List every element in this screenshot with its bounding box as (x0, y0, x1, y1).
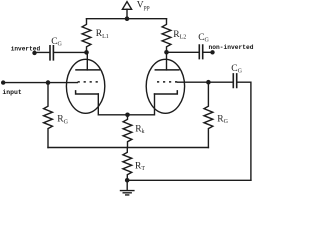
wire inverted output right segment (54, 51, 87, 53)
wire top supply rail (87, 18, 167, 20)
triode V2 plate bar (155, 69, 179, 71)
resistor RG left (44, 83, 53, 148)
terminal dot inverted (32, 51, 36, 55)
resistor Rk (123, 115, 132, 148)
svg-text:CG: CG (198, 33, 209, 44)
triode V1 plate bar (76, 69, 100, 71)
svg-text:CG: CG (231, 64, 242, 75)
wire V2 grid to right (177, 81, 232, 83)
resistor RT (123, 148, 132, 181)
junction dot input RG (46, 80, 51, 85)
junction dot grid RG right (206, 80, 211, 85)
wire inverted output left segment (35, 51, 50, 53)
triode V2 grid dashes (157, 81, 177, 83)
triode V2 envelope (146, 59, 184, 113)
capacitor CG output plates (199, 45, 202, 59)
terminal dot non-inverted (210, 50, 214, 54)
resistor RL2 (162, 19, 171, 53)
wire bottom return (127, 179, 251, 181)
wire middle rail (48, 147, 208, 149)
svg-text:RL2: RL2 (173, 30, 186, 41)
svg-text:RG: RG (217, 114, 228, 125)
svg-text:CG: CG (51, 37, 62, 48)
svg-text:non-inverted: non-inverted (209, 44, 254, 51)
svg-text:inverted: inverted (11, 45, 41, 52)
svg-text:input: input (2, 89, 21, 96)
wire grid cap to right edge corner (237, 82, 251, 180)
power symbol Vpp triangle (122, 2, 131, 10)
terminal dot input (1, 80, 5, 84)
junction dot RL2 bottom (164, 50, 169, 55)
junction dot ground (125, 178, 130, 183)
junction dot RL1 bottom (84, 50, 89, 55)
triode V1 envelope (66, 59, 104, 113)
capacitor CG grid plates (233, 74, 236, 88)
resistor RG right (204, 82, 213, 147)
svg-text:Rk: Rk (135, 124, 144, 135)
wire V1 cathode lead (98, 94, 127, 115)
wire Vpp lead (126, 9, 128, 18)
junction dot Vpp rail (125, 16, 130, 21)
resistor RL1 (82, 19, 91, 53)
svg-text:RT: RT (135, 161, 145, 172)
triode V1 grid dashes (78, 81, 98, 83)
svg-text:RG: RG (57, 115, 68, 126)
wire output cap to non-inverted terminal (203, 51, 212, 53)
triode V1 cathode (76, 91, 99, 94)
wire V2 plate lead (166, 52, 168, 70)
wire input line (3, 82, 77, 84)
capacitor CG left plates (50, 46, 53, 60)
wire RL2 to output cap (167, 51, 199, 53)
svg-text:Vpp: Vpp (137, 0, 150, 11)
ground (121, 180, 134, 195)
triode V2 cathode (155, 91, 178, 94)
junction dot cathodes (125, 113, 130, 118)
wire V2 cathode lead (128, 94, 155, 115)
svg-text:RL1: RL1 (96, 29, 109, 40)
wire V1 plate lead (86, 52, 88, 70)
